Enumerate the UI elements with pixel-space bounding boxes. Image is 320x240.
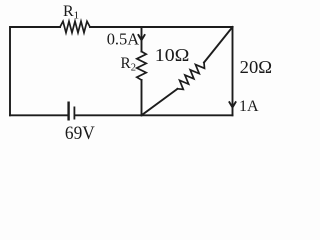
wire left side bbox=[10, 27, 60, 115]
wire bottom left of battery bbox=[10, 114, 68, 116]
resistor 10ohm diagonal bbox=[178, 63, 205, 90]
wire diagonal lower segment bbox=[142, 89, 178, 116]
arrow 1A current bbox=[229, 102, 235, 107]
wire bottom right of battery bbox=[75, 114, 233, 116]
wire middle branch bottom bbox=[141, 80, 143, 115]
resistor R1 bbox=[60, 21, 90, 32]
battery 69V plates bbox=[69, 102, 75, 121]
svg-text:1A: 1A bbox=[239, 98, 259, 115]
wire right side bbox=[232, 27, 234, 115]
svg-text:0.5A: 0.5A bbox=[107, 30, 140, 49]
resistor R2 bbox=[137, 52, 146, 81]
svg-text:10Ω: 10Ω bbox=[155, 45, 190, 65]
svg-text:R1: R1 bbox=[63, 3, 79, 22]
svg-text:20Ω: 20Ω bbox=[240, 57, 272, 77]
wire diagonal upper segment bbox=[204, 27, 233, 63]
svg-text:R2: R2 bbox=[121, 55, 136, 74]
wire top right of R1 bbox=[90, 26, 233, 28]
arrow 0.5A current bbox=[138, 35, 144, 40]
wire middle branch top bbox=[141, 27, 143, 52]
svg-text:69V: 69V bbox=[65, 123, 95, 144]
